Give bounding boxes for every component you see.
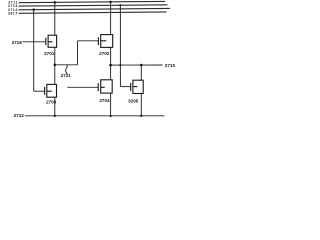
svg-text:2721: 2721	[61, 73, 72, 78]
svg-text:2716: 2716	[12, 40, 23, 45]
svg-text:3205: 3205	[128, 99, 139, 104]
svg-text:3817: 3817	[8, 11, 18, 15]
svg-text:2704: 2704	[99, 98, 110, 103]
svg-text:2703: 2703	[46, 99, 57, 104]
svg-text:2701: 2701	[44, 51, 55, 56]
svg-text:2710: 2710	[165, 63, 176, 68]
svg-text:2702: 2702	[99, 51, 110, 56]
svg-text:2712: 2712	[14, 113, 25, 118]
